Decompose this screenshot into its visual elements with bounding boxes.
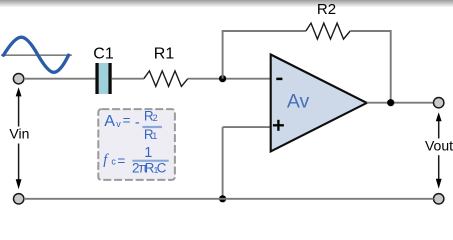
output wire	[367, 102, 434, 104]
formula Av = -R2/R1	[104, 109, 162, 142]
op-amp plus symbol	[273, 124, 284, 126]
Vin arrowhead down	[16, 179, 22, 189]
formula box	[98, 109, 175, 180]
Vin arrowhead up	[16, 87, 22, 96]
svg-text:R1: R1	[154, 45, 175, 62]
Vout arrow line	[438, 119, 440, 180]
svg-text:1: 1	[144, 145, 152, 161]
feedback wire down to output	[390, 30, 392, 103]
formula fc = 1/(2piR1C)	[103, 145, 169, 176]
node A junction dot	[219, 75, 226, 82]
feedback wire right segment	[350, 30, 391, 32]
wire R1 to op-amp minus input	[188, 78, 271, 80]
input terminal Vin+	[13, 74, 23, 84]
output terminal Vout- (bottom)	[434, 194, 444, 204]
svg-text:A: A	[104, 113, 115, 130]
wire node up to feedback	[222, 31, 224, 79]
AC source axis line	[1, 54, 72, 56]
op-amp minus symbol	[276, 78, 282, 81]
bottom rail wire	[24, 198, 434, 200]
output terminal Vout+	[434, 98, 444, 108]
Vout label	[424, 139, 453, 156]
svg-text:R2: R2	[317, 1, 336, 18]
resistor R2	[306, 23, 350, 39]
svg-text:v: v	[116, 119, 121, 129]
resistor R1	[144, 71, 188, 87]
svg-text:c: c	[111, 156, 116, 166]
junction dot bottom rail	[219, 195, 226, 202]
op-amp U1 body	[271, 55, 367, 152]
Vin label	[5, 127, 32, 144]
AC source sine wave	[4, 37, 69, 72]
Vin arrow line	[18, 94, 20, 181]
wire input to C1	[24, 78, 96, 80]
wire plus input	[223, 126, 271, 128]
Vout arrowhead up	[436, 112, 442, 121]
output node junction dot	[387, 99, 394, 106]
wire C1 to R1	[112, 78, 144, 80]
svg-text:2: 2	[153, 113, 158, 123]
input terminal Vin- (bottom)	[14, 194, 24, 204]
svg-text:C1: C1	[93, 45, 114, 62]
svg-text:Av: Av	[287, 91, 310, 113]
svg-text:Vout: Vout	[425, 137, 453, 153]
svg-text:=: =	[123, 113, 131, 128]
capacitor C1 body	[99, 63, 109, 94]
wire plus input down to ground rail	[222, 127, 224, 199]
top shadow gradient	[0, 0, 453, 8]
svg-text:1: 1	[152, 131, 157, 141]
Vout arrowhead down	[436, 179, 442, 189]
capacitor C1 left plate	[95, 63, 98, 94]
svg-text:=: =	[117, 154, 125, 169]
capacitor C1 right plate	[108, 63, 111, 94]
svg-text:C: C	[157, 161, 167, 176]
svg-text:Vin: Vin	[9, 126, 29, 142]
feedback wire top left segment	[222, 30, 306, 32]
svg-text:-: -	[135, 115, 140, 131]
